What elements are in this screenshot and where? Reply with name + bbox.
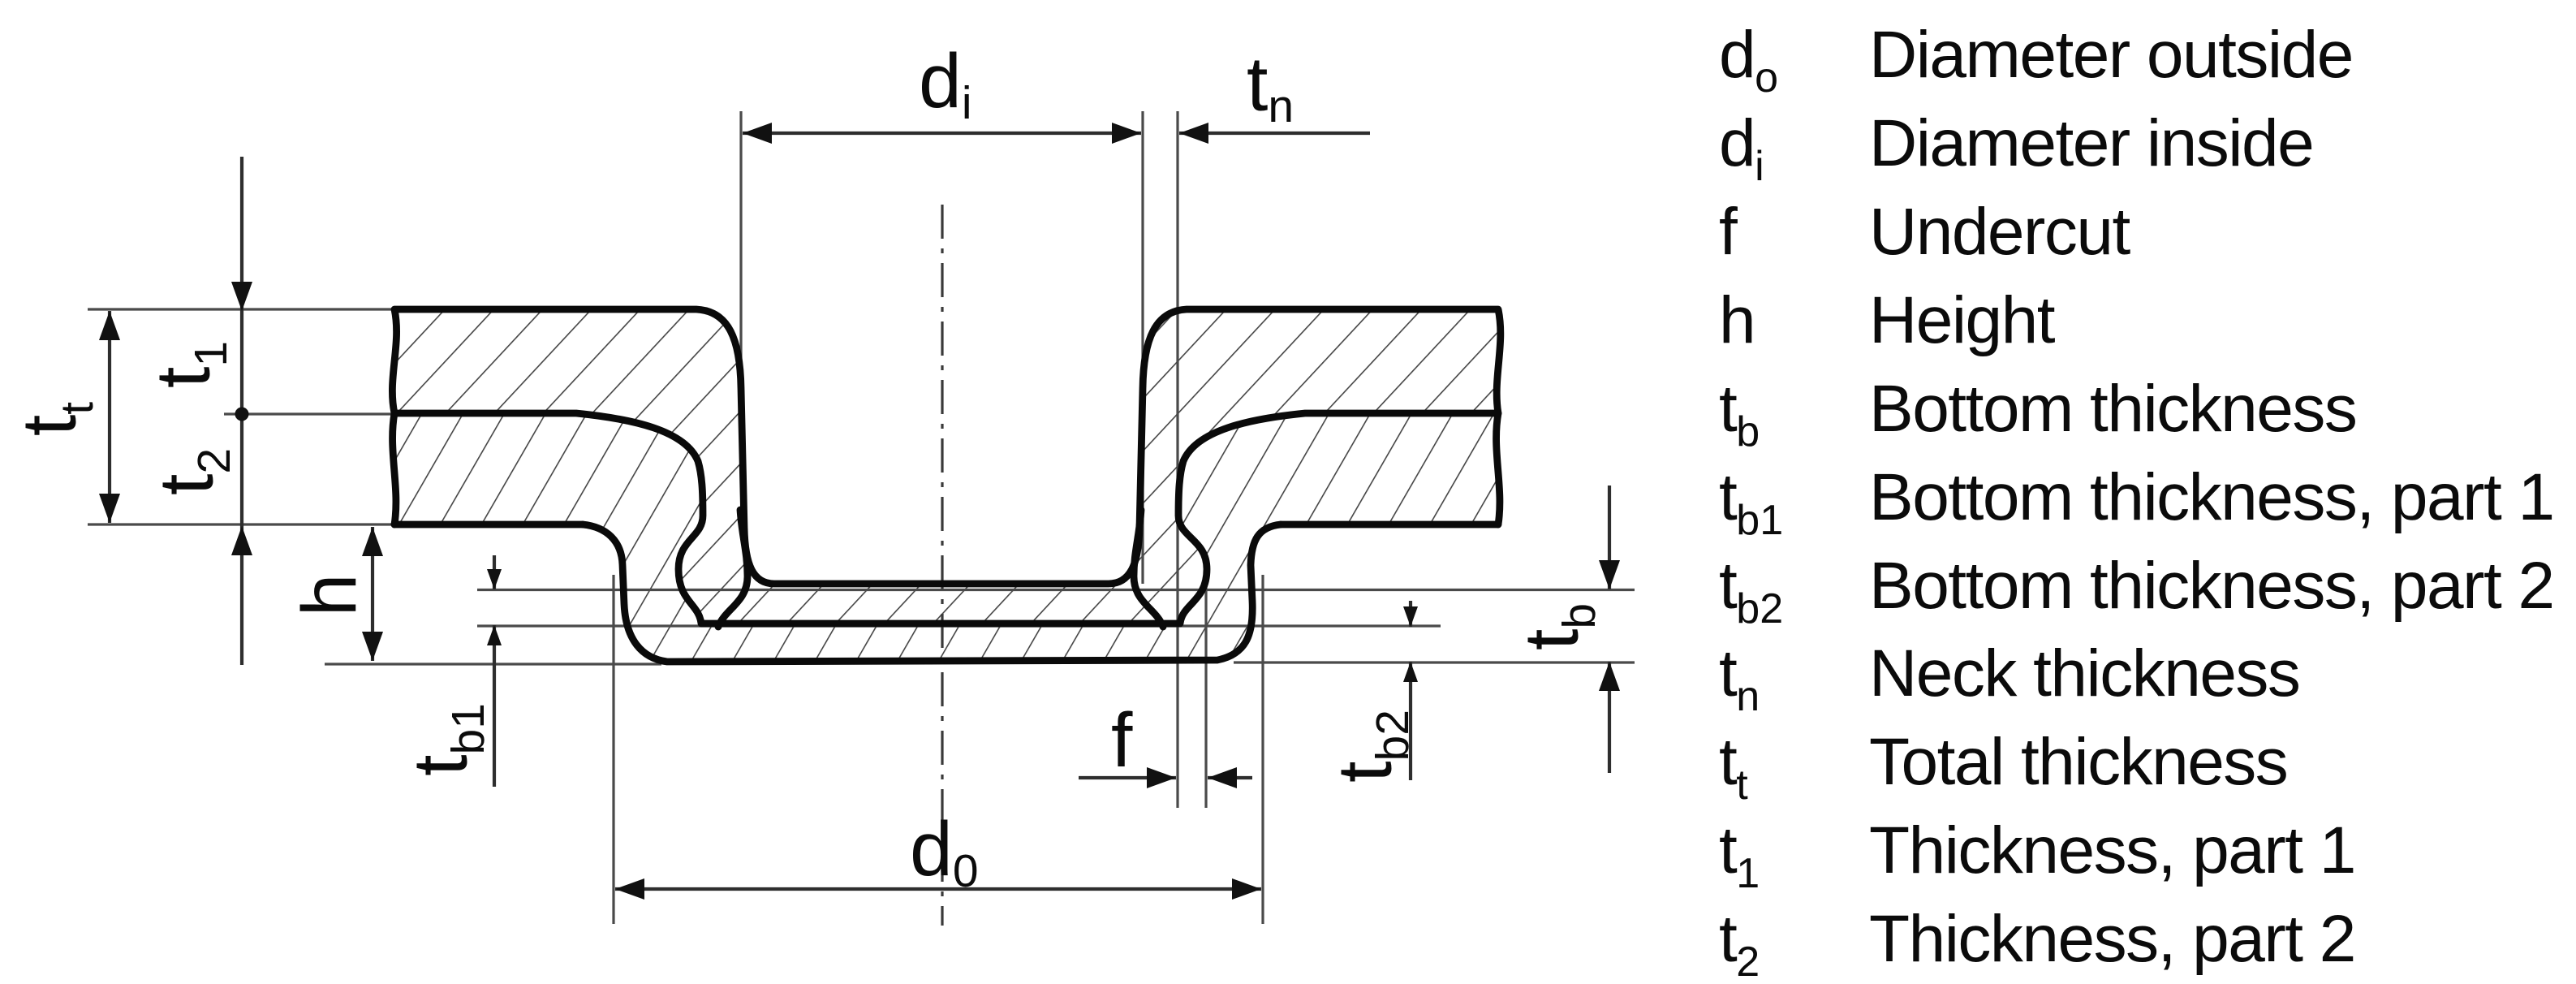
svg-text:Bottom thickness, part 2: Bottom thickness, part 2 <box>1869 549 2554 623</box>
svg-text:Undercut: Undercut <box>1869 195 2130 269</box>
svg-text:di: di <box>1719 106 1764 190</box>
svg-text:tb: tb <box>1719 372 1760 455</box>
svg-text:tn: tn <box>1247 41 1294 132</box>
svg-text:t2: t2 <box>144 448 240 495</box>
svg-text:h: h <box>1719 283 1755 357</box>
svg-text:do: do <box>1719 18 1778 101</box>
svg-text:tb2: tb2 <box>1322 710 1419 783</box>
svg-text:Diameter inside: Diameter inside <box>1869 106 2313 180</box>
svg-text:Diameter outside: Diameter outside <box>1869 18 2353 92</box>
svg-text:Bottom thickness, part 1: Bottom thickness, part 1 <box>1869 460 2554 534</box>
svg-text:Neck thickness: Neck thickness <box>1869 637 2299 710</box>
svg-text:t1: t1 <box>140 341 237 388</box>
svg-text:h: h <box>286 574 373 617</box>
svg-text:d0: d0 <box>910 806 979 897</box>
svg-text:Thickness, part 1: Thickness, part 1 <box>1869 814 2355 887</box>
svg-text:tn: tn <box>1719 637 1760 720</box>
svg-text:f: f <box>1111 697 1133 783</box>
svg-text:tb: tb <box>1509 603 1605 650</box>
svg-text:tb1: tb1 <box>398 703 494 776</box>
svg-text:f: f <box>1719 195 1738 269</box>
svg-text:di: di <box>919 38 972 129</box>
svg-text:tt: tt <box>6 402 103 436</box>
svg-text:Bottom thickness: Bottom thickness <box>1869 372 2356 446</box>
svg-text:tb2: tb2 <box>1719 549 1783 632</box>
svg-text:tb1: tb1 <box>1719 460 1783 544</box>
svg-text:t1: t1 <box>1719 814 1760 897</box>
svg-text:Thickness, part 2: Thickness, part 2 <box>1869 902 2355 976</box>
svg-text:tt: tt <box>1719 725 1748 809</box>
svg-text:t2: t2 <box>1719 902 1760 984</box>
svg-text:Height: Height <box>1869 283 2056 357</box>
svg-text:Total thickness: Total thickness <box>1869 725 2287 799</box>
